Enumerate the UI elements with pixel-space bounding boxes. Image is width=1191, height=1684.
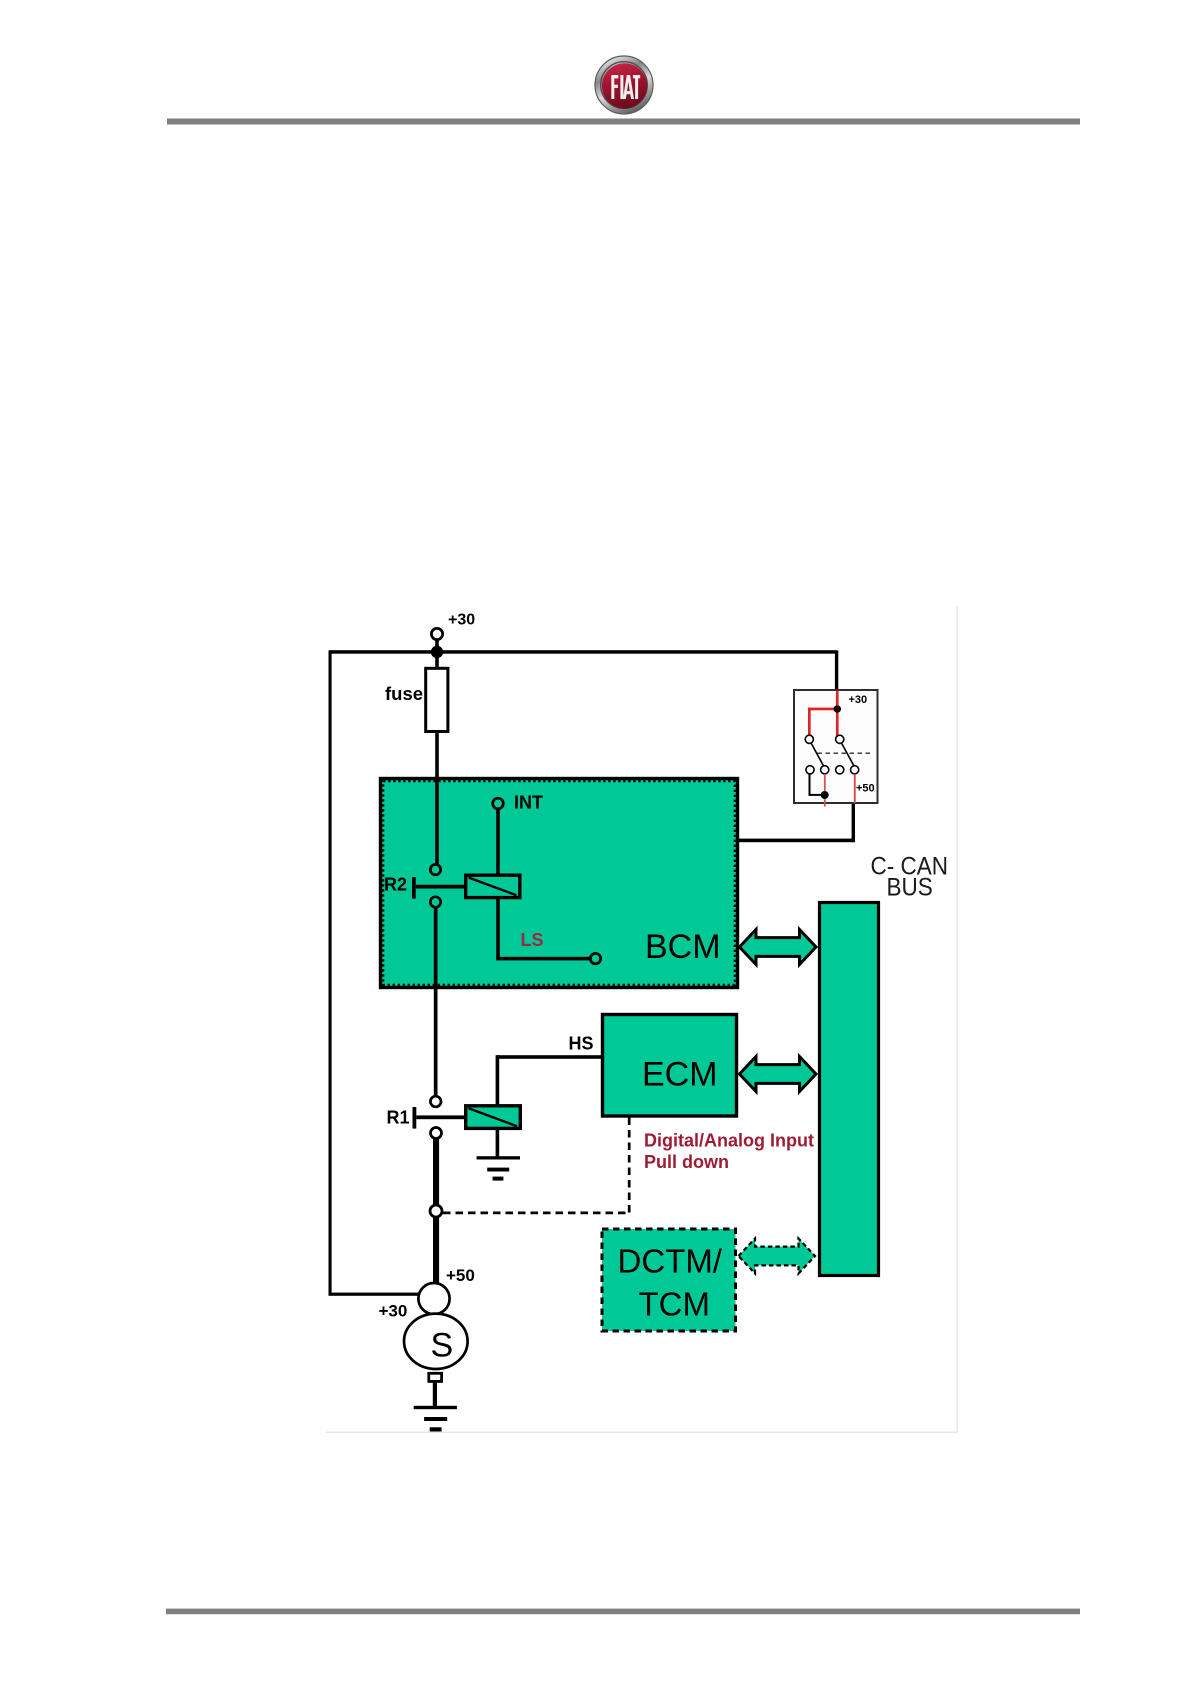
switch contact bottom 1 <box>806 766 814 774</box>
DCTM to bus dashed arrow <box>739 1239 816 1274</box>
wire LS horizontal <box>496 957 590 961</box>
BCM to bus arrow <box>740 930 817 965</box>
svg-text:LS: LS <box>521 930 544 950</box>
wire bottom horizontal to starter <box>329 1293 420 1296</box>
switch filled dot <box>821 791 829 799</box>
switch contact bottom 4 <box>851 766 859 774</box>
svg-text:Digital/Analog Input: Digital/Analog Input <box>644 1131 814 1151</box>
header rule <box>167 119 1080 125</box>
footer rule <box>166 1609 1080 1615</box>
C-CAN bus bar <box>820 903 879 1276</box>
wire HS horizontal <box>497 1055 601 1059</box>
switch arm right <box>842 743 854 765</box>
wire left loop vertical <box>329 650 332 1295</box>
wire starter to ground <box>433 1381 437 1406</box>
diagram image border right <box>957 607 958 1433</box>
wire R2 to R1 vertical <box>434 907 438 1096</box>
switch red branch horizontal <box>808 708 838 711</box>
wire R2 coil to LS <box>496 898 500 959</box>
terminal INT <box>493 798 504 809</box>
svg-text:+30: +30 <box>849 694 868 706</box>
wire R1 coil to ground <box>496 1128 500 1156</box>
R2 contact bar <box>412 877 416 899</box>
terminal +30 <box>431 628 442 639</box>
starter ground bar2 <box>424 1417 447 1421</box>
switch red wire c4 (+50) <box>854 774 856 803</box>
starter motor S body <box>404 1314 468 1369</box>
wire HS to relay R1 coil <box>496 1055 500 1106</box>
fuse F1 <box>426 668 448 731</box>
svg-text:R2: R2 <box>384 875 407 895</box>
ground under R1 bar1 <box>477 1156 520 1159</box>
svg-text:S: S <box>431 1327 454 1365</box>
svg-text:+30: +30 <box>448 612 475 629</box>
switch red branch vertical <box>808 708 811 736</box>
C-CAN BUS label <box>871 852 948 880</box>
switch junction dot <box>834 705 842 713</box>
switch +30 feed wire (red) <box>836 691 839 740</box>
Fiat logo <box>595 56 653 114</box>
svg-text:+30: +30 <box>379 1302 408 1321</box>
starter ground bar3 <box>430 1427 442 1431</box>
ECM module box <box>603 1015 737 1117</box>
switch contact bottom 3 <box>836 766 844 774</box>
terminal LS <box>590 953 600 963</box>
ECM to bus arrow <box>740 1057 817 1092</box>
switch red wire c2 <box>824 774 826 791</box>
relay R1 coil <box>466 1106 521 1129</box>
BCM module box <box>381 779 738 988</box>
switch contact top-left <box>805 735 813 743</box>
svg-text:ECM: ECM <box>642 1056 718 1094</box>
svg-text:+50: +50 <box>446 1266 475 1285</box>
switch arm left <box>811 743 823 765</box>
svg-text:+50: +50 <box>856 783 875 795</box>
switch travel dashed line <box>818 752 871 754</box>
switch contact bottom 2 <box>821 766 829 774</box>
switch contact top-right <box>836 735 844 743</box>
svg-text:HS: HS <box>569 1034 594 1054</box>
wire fuse to R2 contact <box>435 732 439 865</box>
wire ignition switch drop <box>852 803 855 842</box>
R1 contact bar <box>413 1107 417 1129</box>
wire terminal to fuse <box>435 639 439 668</box>
R1 contact lower terminal <box>431 1128 442 1139</box>
switch wire c1 down <box>809 774 811 795</box>
svg-text:R1: R1 <box>387 1108 410 1128</box>
DCTM/TCM module box <box>602 1229 736 1331</box>
ground under R1 bar3 <box>493 1177 504 1181</box>
relay R2 coil <box>466 875 520 897</box>
thick wire R1 to starter <box>433 1139 439 1284</box>
wire INT to relay R2 coil <box>496 809 500 876</box>
diagram image border bottom <box>326 1432 958 1433</box>
switch red wire c2 tail <box>824 799 826 806</box>
R2 contact lower terminal <box>430 897 440 907</box>
wire R2 bar to coil <box>416 885 466 889</box>
dashed wire ECM input vertical <box>628 1118 631 1213</box>
svg-text:BUS: BUS <box>887 873 933 901</box>
starter solenoid circle <box>418 1283 449 1314</box>
R2 contact upper terminal <box>430 864 440 874</box>
svg-text:INT: INT <box>514 793 543 813</box>
svg-text:BCM: BCM <box>645 928 721 966</box>
wire top horizontal <box>329 650 837 654</box>
starter terminal square <box>429 1373 442 1381</box>
R1 contact upper terminal <box>430 1096 441 1107</box>
wire BCM to ignition switch horizontal <box>738 839 854 843</box>
ground under R1 bar2 <box>487 1168 509 1172</box>
starter ground bar1 <box>414 1406 457 1409</box>
switch wire c1 to dot <box>809 794 826 796</box>
ignition switch box <box>794 690 878 803</box>
svg-text:DCTM/: DCTM/ <box>618 1243 723 1280</box>
svg-text:fuse: fuse <box>385 683 423 704</box>
junction dot at +30 <box>431 646 443 658</box>
wire R1 bar to coil <box>416 1115 465 1119</box>
wire right vertical to ignition switch <box>835 650 838 690</box>
svg-text:TCM: TCM <box>639 1286 710 1323</box>
junction node on starter wire <box>430 1205 442 1217</box>
svg-text:Pull down: Pull down <box>644 1152 729 1172</box>
dashed wire junction to ECM input horizontal <box>443 1212 630 1215</box>
